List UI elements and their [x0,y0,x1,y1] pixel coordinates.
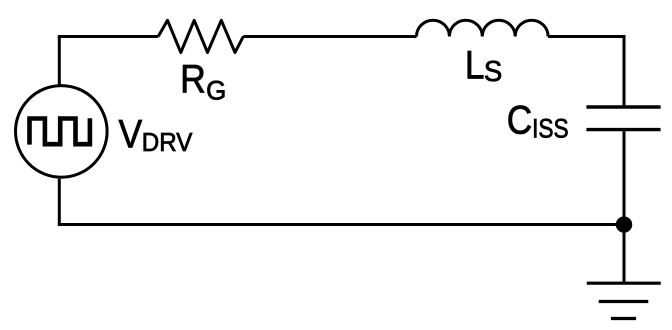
wire: top-left vertical riser from source to top rail [58,37,61,85]
ground [587,283,661,318]
inductor LS [417,20,549,36]
svg-text:S: S [484,54,502,87]
svg-text:L: L [465,43,485,88]
label VDRV [119,113,193,157]
svg-text:ISS: ISS [532,113,569,143]
label RG [180,58,226,106]
wire: junction to ground [623,225,626,284]
wire: top rail right segment (inductor to right corner) [548,35,625,38]
capacitor CISS [586,107,660,130]
wire: left vertical from source bottom to bottom rail [58,179,60,226]
resistor RG [158,20,243,52]
wire: bottom rail [59,223,624,226]
node: junction dot [616,216,632,232]
label LS [465,43,502,88]
svg-text:C: C [507,97,532,142]
svg-text:R: R [180,58,206,102]
wire: right vertical from top rail to capacitor top plate [623,37,626,106]
wire: top rail middle segment (resistor to inductor) [243,35,416,38]
svg-text:DRV: DRV [142,128,193,157]
svg-text:G: G [206,75,226,106]
voltage source VDRV [16,86,108,178]
wire: top rail left segment (corner to resistor) [58,35,159,38]
wire: right vertical from capacitor bottom plate to junction [623,131,626,224]
svg-text:V: V [119,113,143,157]
label CISS [507,97,569,144]
